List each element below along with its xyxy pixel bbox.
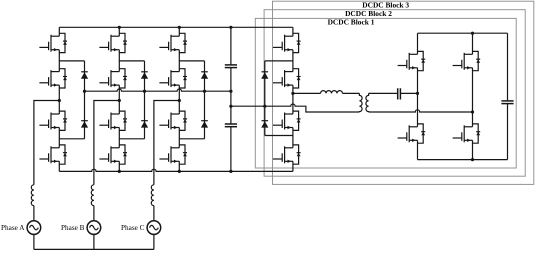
wire: secondary bottom to H-bridge right midpoint with hop	[369, 110, 473, 112]
wire: leg 3 vertical drops	[178, 27, 180, 171]
wire: source return bottom	[34, 248, 154, 250]
wire: leg 2 vertical drops	[118, 27, 120, 171]
transistor Q15	[273, 111, 301, 130]
wire: H-bridge top rail	[418, 32, 508, 34]
node: DC-link midpoint to DCDC	[229, 105, 232, 108]
diode D2	[81, 121, 88, 128]
inductor L3	[151, 185, 154, 206]
source Phase C	[147, 221, 161, 235]
wire: leg 2 clamp diode column	[144, 61, 146, 139]
svg-text:Phase A: Phase A	[1, 224, 25, 232]
diode D6	[201, 121, 208, 128]
transistor Q4	[39, 145, 67, 164]
wire: leg 3 clamp top	[179, 60, 204, 62]
svg-text:Phase C: Phase C	[121, 224, 145, 232]
capacitor C2	[225, 124, 237, 127]
wire: leg 3 clamp bottom	[179, 138, 204, 140]
node: phase C output	[178, 99, 181, 102]
wire: leg 2 clamp top	[119, 60, 144, 62]
transformer T1 secondary	[366, 93, 369, 112]
capacitor C4	[501, 101, 513, 104]
wire: leg 1 clamp diode column	[84, 61, 86, 139]
transistor Q3	[39, 111, 67, 130]
transistor Q5	[99, 33, 127, 52]
diode D3	[141, 72, 148, 79]
wire: DCDC leg vertical drops	[292, 27, 294, 171]
wire: H-bridge bottom rail	[418, 159, 508, 161]
DCDC Block 1 enclosure	[255, 18, 516, 168]
source Phase A	[27, 221, 41, 235]
svg-text:DCDC Block 1: DCDC Block 1	[328, 17, 375, 26]
transistor Q13	[273, 33, 301, 52]
diode D8	[261, 121, 268, 128]
transformer T1 primary	[359, 93, 362, 112]
node: top bus tap leg 2	[118, 26, 121, 29]
transistor Q6	[99, 69, 127, 88]
node: DCDC leg output	[291, 92, 294, 95]
inductor L4	[321, 91, 343, 94]
node: midpoint bus leg 2 diodes	[143, 90, 146, 93]
transistor Q19	[398, 124, 426, 143]
transistor Q17	[398, 51, 426, 70]
transistor Q16	[273, 145, 301, 164]
node: DCDC neutral junction	[263, 105, 266, 108]
wire: phase C tap	[154, 101, 179, 185]
wire: leg 1 clamp bottom	[59, 138, 84, 140]
wire: phase C source lead	[153, 206, 155, 250]
node: H-bridge right midpoint	[471, 110, 474, 113]
transistor Q2	[39, 69, 67, 88]
source Phase B	[87, 221, 101, 235]
DCDC Block 3 enclosure	[273, 1, 534, 184]
wire: DCDC clamp diode column	[264, 61, 266, 136]
wire: series capacitor to H-bridge left midpoint	[400, 92, 417, 94]
node: top bus tap DC-link	[229, 26, 232, 29]
node: phase B output	[118, 99, 121, 102]
wire: phase A tap	[34, 101, 59, 185]
node: bottom bus tap leg 2	[118, 170, 121, 173]
wire: leg 1 clamp top	[59, 60, 84, 62]
wire: phase B tap	[94, 101, 119, 185]
wire: inductor to transformer	[343, 92, 360, 94]
transistor Q10	[159, 69, 187, 88]
diode D7	[261, 72, 268, 79]
diode D5	[201, 72, 208, 79]
wire: DC-link capacitor string	[230, 27, 232, 171]
node: H-bridge left midpoint	[416, 92, 419, 95]
wire: output capacitor leads	[507, 33, 509, 159]
wire: DCDC clamp top	[265, 60, 293, 62]
wire: bottom DC- bus with hops over phase B and C wires	[59, 169, 293, 171]
node: bottom rail tap	[471, 158, 474, 161]
wire: DCDC leg output to inductor	[293, 92, 321, 94]
svg-text:Phase B: Phase B	[61, 224, 85, 232]
capacitor C3	[398, 88, 401, 99]
transistor Q12	[159, 145, 187, 164]
wire: secondary top to series capacitor	[369, 92, 398, 94]
transistor Q11	[159, 111, 187, 130]
transistor Q7	[99, 111, 127, 130]
node: top bus tap leg 3	[178, 26, 181, 29]
wire: leg 1 vertical drops	[58, 27, 60, 171]
node: phase A output	[58, 99, 61, 102]
wire: leg 3 clamp diode column	[204, 61, 206, 139]
wire: neutral midpoint bus with hops over leg 2 and leg 3	[85, 89, 231, 91]
wire: H-bridge right leg verticals	[472, 33, 474, 159]
transistor Q20	[453, 124, 481, 143]
wire: phase B source lead	[93, 206, 95, 250]
transistor Q18	[453, 51, 481, 70]
diode D4	[141, 121, 148, 128]
node: midpoint bus DC-link	[229, 90, 232, 93]
wire: phase A source lead	[33, 206, 35, 250]
DCDC Block 2 enclosure	[264, 10, 525, 177]
transistor Q9	[159, 33, 187, 52]
inductor L1	[31, 185, 34, 206]
transistor Q14	[273, 69, 301, 88]
wire: top DC+ bus	[59, 26, 293, 28]
wire: DCDC clamp bottom	[265, 135, 293, 137]
node: midpoint bus leg 1 diodes	[83, 90, 86, 93]
wire: H-bridge left leg verticals	[417, 33, 419, 159]
transistor Q8	[99, 145, 127, 164]
node: midpoint bus leg 3 diodes	[203, 90, 206, 93]
transistor Q1	[39, 33, 67, 52]
node: bottom bus tap leg 3	[178, 170, 181, 173]
wire: neutral link to transformer with hop over DCDC leg	[231, 104, 360, 112]
capacitor C1	[225, 65, 237, 68]
node: top rail tap	[471, 32, 474, 35]
node: bottom bus tap DC-link	[229, 170, 232, 173]
inductor L2	[91, 185, 94, 206]
wire: leg 2 clamp bottom	[119, 138, 144, 140]
diode D1	[81, 72, 88, 79]
